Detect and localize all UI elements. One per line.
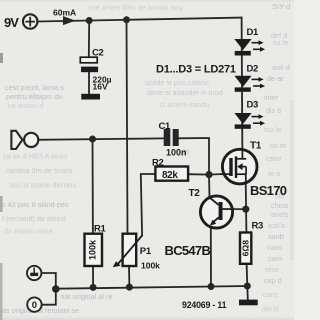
svg-text:de ar: de ar [267,74,284,83]
svg-text:ce ainian d: ce ainian d [8,101,43,110]
svg-text:R1: R1 [94,224,107,235]
svg-text:924069 - 11: 924069 - 11 [182,300,227,310]
svg-text:BC547B: BC547B [165,243,211,258]
svg-text:C1: C1 [159,121,172,132]
svg-text:T1: T1 [250,141,262,152]
svg-text:cap d: cap d [264,276,282,285]
svg-text:ka le: ka le [273,38,288,47]
svg-text:pentru elitapm dv: pentru elitapm dv [6,92,62,101]
svg-text:60mA: 60mA [53,7,76,17]
svg-text:tsu le: tsu le [264,125,281,134]
svg-text:D1: D1 [247,27,260,38]
svg-text:SIY d: SIY d [272,2,290,11]
svg-text:D2: D2 [247,63,259,74]
svg-text:D3: D3 [247,99,259,110]
svg-text:chica: chica [271,201,289,210]
svg-text:9V: 9V [4,15,19,30]
svg-text:D1...D3 = LD271: D1...D3 = LD271 [156,64,236,76]
svg-text:sonb: sonb [268,232,284,241]
svg-text:caris: caris [267,243,283,252]
svg-text:82k: 82k [162,170,178,181]
svg-text:0: 0 [32,300,37,311]
svg-text:dis b: dis b [266,106,281,115]
svg-text:f (recvent) de alsest: f (recvent) de alsest [2,214,66,223]
svg-text:asc si scade din rets: asc si scade din rets [10,181,76,190]
svg-text:R2: R2 [152,157,164,168]
svg-text:celor: celor [266,154,282,163]
svg-text:z 42 pas 8 stiind pes: z 42 pas 8 stiind pes [2,200,69,209]
svg-text:BS170: BS170 [250,183,287,198]
svg-text:cu m: cu m [270,141,286,150]
svg-text:C2: C2 [92,48,104,59]
svg-text:R3: R3 [252,221,264,232]
svg-text:P1: P1 [140,246,152,257]
svg-text:100k: 100k [88,239,98,260]
svg-text:de etalon more: de etalon more [4,227,53,236]
svg-text:scade si pas calane: scade si pas calane [145,78,209,87]
svg-text:16V: 16V [93,81,108,91]
svg-text:inter: inter [264,93,279,102]
svg-text:anti d: anti d [272,63,290,72]
svg-text:ca se 4 HE3 A wcas: ca se 4 HE3 A wcas [3,152,68,161]
svg-text:anels: anels [271,210,289,219]
svg-text:tiat original al re: tiat original al re [61,292,113,301]
svg-text:dane si asander in mod: dane si asander in mod [147,88,223,97]
svg-text:T2: T2 [189,188,201,199]
svg-text:etso: etso [265,265,279,274]
svg-text:care: care [268,254,282,263]
svg-text:100k: 100k [141,261,160,271]
svg-text:6Ω8: 6Ω8 [240,240,250,257]
svg-text:ci anteni sandu: ci anteni sandu [160,100,209,109]
svg-text:nse anten filtru de banda larg: nse anten filtru de banda larg [88,3,183,12]
svg-text:care: care [263,290,277,299]
svg-text:tcsl b: tcsl b [268,221,285,230]
svg-text:sandsa 3m de scazs: sandsa 3m de scazs [6,166,73,175]
svg-text:din R: din R [262,305,279,314]
svg-text:100n: 100n [166,147,187,157]
svg-text:te a: te a [268,169,281,178]
svg-text:cest prezit, lama s: cest prezit, lama s [5,83,64,92]
